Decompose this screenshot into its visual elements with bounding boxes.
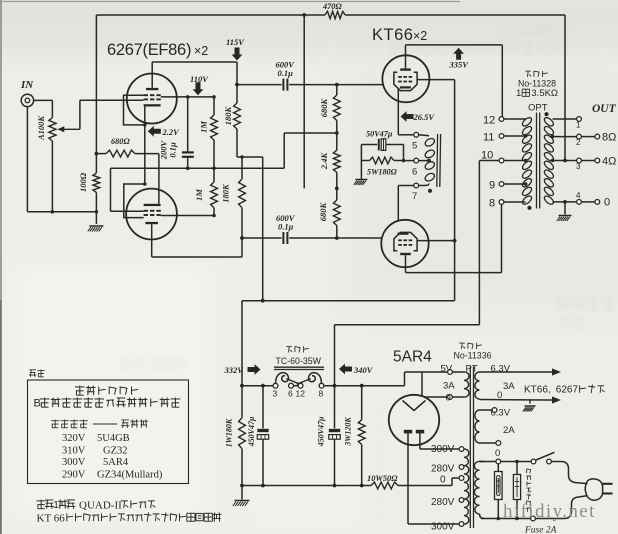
terminal pin6 xyxy=(414,158,419,163)
V2 cathode lead xyxy=(158,154,160,204)
wire filament right xyxy=(424,396,447,398)
tube U1 KT66 envelope xyxy=(382,55,429,102)
svg-text:4: 4 xyxy=(576,191,581,200)
arrow 335V xyxy=(453,48,464,60)
svg-text:TC-60-35W: TC-60-35W xyxy=(276,356,322,366)
wire pin7 to U2 cathode xyxy=(397,186,399,221)
wire ground bus input xyxy=(27,211,96,213)
U2 g2 wire xyxy=(417,240,455,242)
junction g2 cap top xyxy=(186,95,190,99)
junction 242-238 xyxy=(240,236,244,240)
U2 grid dashes xyxy=(398,239,402,241)
terminal 4ohm xyxy=(595,158,600,163)
U3 plates xyxy=(404,430,412,434)
junction divider top xyxy=(335,83,339,87)
terminal 300V bottom xyxy=(459,522,464,527)
V1 cathode xyxy=(144,104,161,106)
resistor 100Ω xyxy=(93,173,100,192)
terminal sec4 xyxy=(577,200,582,205)
svg-text:8: 8 xyxy=(319,389,324,399)
wire NFB to divider node xyxy=(303,15,305,188)
svg-text:10W50Ω: 10W50Ω xyxy=(367,474,398,483)
terminal sec3 xyxy=(577,158,582,163)
U2 bottom electrode xyxy=(400,253,411,255)
U3 plate leads xyxy=(407,433,409,524)
terminal pin12 xyxy=(499,117,504,122)
svg-text:3.5KΩ: 3.5KΩ xyxy=(531,88,558,99)
resistor 5W180Ω xyxy=(361,160,369,162)
svg-text:115V: 115V xyxy=(226,37,245,47)
svg-text:180K: 180K xyxy=(223,105,233,125)
junction cap1 top xyxy=(261,384,265,388)
junction 1M mid xyxy=(212,166,216,170)
svg-text:KT66: KT66 xyxy=(372,26,413,44)
capacitor 450V47μ second xyxy=(334,386,336,429)
svg-text:320V: 320V xyxy=(62,433,86,444)
terminal 300V top xyxy=(459,447,464,452)
V2 plate xyxy=(145,222,158,224)
svg-text:12: 12 xyxy=(483,115,495,127)
junction sec gnd xyxy=(563,200,567,204)
terminal pin10 xyxy=(499,158,504,163)
wire sec tap2 xyxy=(553,136,577,138)
resistor 1M lower xyxy=(211,182,218,208)
terminal sec1 xyxy=(577,117,582,122)
resistor 1M upper xyxy=(211,115,218,140)
svg-text:OPT: OPT xyxy=(528,103,548,114)
wire psu gnd xyxy=(241,486,243,500)
wire 332V screens line xyxy=(242,300,455,302)
PT 63V winding second xyxy=(475,410,480,443)
wire heater CT gnd xyxy=(529,400,531,404)
V2 g2 wire xyxy=(161,215,214,217)
capacitor 600V 0.1μ lower xyxy=(242,237,282,239)
tube U2 KT66 envelope xyxy=(381,220,428,267)
svg-text:450V47μ: 450V47μ xyxy=(247,416,256,447)
svg-text:×2: ×2 xyxy=(413,29,427,43)
svg-text:10: 10 xyxy=(481,150,493,162)
junction fuse bottom xyxy=(497,517,501,521)
terminal AC bottom xyxy=(531,516,536,521)
terminal 5V top xyxy=(448,370,453,375)
wire screens drop xyxy=(454,80,456,301)
wire V2 g3 to cathode node xyxy=(144,154,146,184)
wire choke mid xyxy=(293,385,298,387)
U2 beam plate xyxy=(394,232,417,250)
svg-text:1W180K: 1W180K xyxy=(225,418,234,447)
wire heater top xyxy=(480,371,549,373)
arrow 2.2V xyxy=(148,126,161,137)
svg-text:2.2V: 2.2V xyxy=(162,127,181,137)
arrow heater bottom xyxy=(552,396,561,403)
svg-text:0.1μ: 0.1μ xyxy=(278,222,294,232)
svg-text:5AR4: 5AR4 xyxy=(103,457,129,468)
table title 電源トランス xyxy=(75,386,85,388)
PT 5V winding xyxy=(464,372,469,397)
coil cathode winding xyxy=(424,137,436,148)
wire wiper to V1 grid xyxy=(80,99,144,101)
wire jack to pot xyxy=(34,99,53,101)
svg-text:No-11328: No-11328 xyxy=(518,79,556,89)
show-through text (page verso) xyxy=(121,22,616,370)
svg-text:300V: 300V xyxy=(431,522,455,533)
svg-text:8Ω: 8Ω xyxy=(602,132,616,144)
terminal 8ohm xyxy=(595,134,600,139)
wire choke right xyxy=(324,385,405,387)
svg-text:0.1μ: 0.1μ xyxy=(168,142,178,158)
terminal pin8 xyxy=(499,200,504,205)
input jack J1 xyxy=(21,94,33,106)
choke coil L2 xyxy=(309,373,322,385)
wire switch to plug xyxy=(551,462,587,484)
wire to U1 grid xyxy=(337,84,383,86)
U2 plate line to pin8 xyxy=(406,272,502,274)
tube V1 6267(EF86) envelope xyxy=(127,74,177,124)
svg-text:5: 5 xyxy=(412,141,417,152)
wire NFB rail top xyxy=(96,14,325,16)
V1 plate xyxy=(146,88,158,90)
svg-text:335V: 335V xyxy=(449,60,470,70)
svg-text:300V: 300V xyxy=(431,444,455,455)
ground OPT xyxy=(559,215,572,217)
label スパークキラー xyxy=(526,469,528,474)
U1 grid dashes xyxy=(398,76,402,78)
svg-text:IN: IN xyxy=(20,79,34,91)
tube U3 5AR4 envelope xyxy=(389,395,439,445)
svg-text:4Ω: 4Ω xyxy=(602,156,616,168)
terminal 2A bottom xyxy=(496,441,501,446)
capacitor 50V47μ xyxy=(361,144,377,146)
U1 g2 wire xyxy=(417,79,455,81)
resistor 680K upper xyxy=(333,95,340,121)
junction 180K lower top xyxy=(240,155,243,158)
junction 100-gnd bus xyxy=(95,210,99,214)
resistor 470Ω xyxy=(325,11,345,18)
junction sec tap2 xyxy=(551,135,555,139)
U1 top electrode xyxy=(400,68,411,70)
wire 332V down xyxy=(241,301,243,418)
wire V2 grid feed xyxy=(110,168,112,211)
V1 g2 wire xyxy=(161,96,214,98)
svg-text:5U4GB: 5U4GB xyxy=(97,433,130,444)
choke terminal 6 xyxy=(289,383,294,388)
svg-text:290V: 290V xyxy=(62,470,86,481)
svg-text:9: 9 xyxy=(489,180,495,192)
caption line1 xyxy=(37,500,46,502)
svg-text:0: 0 xyxy=(604,197,610,209)
arrow 115V xyxy=(232,48,243,61)
junction NFB 4ohm xyxy=(563,159,567,163)
wire RC left node xyxy=(360,145,362,161)
label 参考 xyxy=(29,369,36,371)
junction cap-gridline xyxy=(186,166,190,170)
svg-text:0: 0 xyxy=(440,475,446,486)
svg-text:0.1μ: 0.1μ xyxy=(278,68,294,78)
svg-text:3W120K: 3W120K xyxy=(344,417,353,447)
svg-text:450V47μ: 450V47μ xyxy=(317,416,326,447)
V2 cathode xyxy=(144,204,161,206)
svg-text:5W180Ω: 5W180Ω xyxy=(367,168,397,177)
wire Bplus rail front-end xyxy=(237,156,263,158)
tube V2 6267(EF86) envelope xyxy=(126,189,177,240)
OPT core xyxy=(536,113,538,209)
wire RC right node xyxy=(403,145,405,161)
svg-text:hifidiy.net: hifidiy.net xyxy=(503,501,596,522)
svg-text:6267: 6267 xyxy=(556,385,579,396)
spark killer xyxy=(516,462,518,475)
svg-text:6: 6 xyxy=(288,389,293,399)
svg-text:26.5V: 26.5V xyxy=(413,112,436,122)
junction sk top xyxy=(515,460,519,464)
choke coil L1 xyxy=(276,373,289,385)
junction 3W120K top xyxy=(360,384,364,388)
svg-text:GZ34(Mullard): GZ34(Mullard) xyxy=(97,470,163,481)
svg-text:1M: 1M xyxy=(194,189,204,201)
svg-text:Fuse 2A: Fuse 2A xyxy=(524,526,557,534)
arrow 110V xyxy=(193,82,204,95)
terminal 0ohm xyxy=(595,200,600,205)
wire OPT gnd xyxy=(564,202,566,215)
junction screens-Bplus xyxy=(261,299,265,303)
OPT secondary winding xyxy=(543,116,555,127)
terminal pin11 xyxy=(499,134,504,139)
svg-text:KT66,: KT66, xyxy=(524,385,551,396)
junction plate-cap xyxy=(235,83,239,87)
junction pot-gnd xyxy=(51,210,55,214)
U1 cathode lead xyxy=(397,89,399,135)
junction NFB tap xyxy=(302,13,306,17)
svg-text:3: 3 xyxy=(576,162,581,171)
wire Bplus 340V to 5V xyxy=(404,372,406,386)
U1 beam plate xyxy=(394,72,417,90)
junction g3-cathode xyxy=(143,123,147,127)
svg-text:50V47μ: 50V47μ xyxy=(366,129,393,138)
svg-text:0: 0 xyxy=(497,390,502,401)
table header 端子電圧-整流管 xyxy=(51,420,59,422)
scan edge top xyxy=(0,1,460,3)
junction choke-332V xyxy=(240,384,244,388)
svg-text:GZ32: GZ32 xyxy=(103,445,128,456)
terminal 280V bottom xyxy=(459,498,464,503)
wire pin10 Bplus xyxy=(479,160,499,162)
resistor 1W180K xyxy=(239,418,246,449)
resistor 180K lower xyxy=(239,179,246,208)
OPT primary winding xyxy=(521,116,533,127)
resistor 2.4K xyxy=(333,150,340,172)
junction pin6 tap xyxy=(427,159,431,163)
V2 grid dashes xyxy=(144,210,148,212)
terminal pin5 xyxy=(414,132,419,137)
svg-text:680Ω: 680Ω xyxy=(111,137,130,146)
junction U2 g2 xyxy=(453,239,457,243)
resistor 180K upper xyxy=(234,103,241,129)
U1 cathode xyxy=(400,86,411,88)
terminal 5V bottom xyxy=(448,395,453,400)
junction sec tap3 xyxy=(551,159,555,163)
wire sec tap3 xyxy=(553,160,577,162)
label タンゴ (PT) xyxy=(459,342,465,344)
phase dot cathode winding xyxy=(428,189,432,193)
wire 332V to bus xyxy=(241,449,243,486)
junction V2 g3 xyxy=(143,182,147,186)
svg-text:0: 0 xyxy=(446,393,451,404)
svg-text:3A: 3A xyxy=(503,381,515,392)
wire NFB rail right drop xyxy=(564,15,566,161)
svg-text:8: 8 xyxy=(489,198,495,210)
terminal sec2 xyxy=(577,134,582,139)
V2 g3 loop xyxy=(124,184,145,218)
arrow 332V xyxy=(248,364,261,375)
wire ground bus psu xyxy=(242,485,371,487)
arrow 26.5V xyxy=(401,111,414,122)
junction RC to pin6 xyxy=(402,159,406,163)
junction bus dots xyxy=(261,484,265,488)
svg-text:470Ω: 470Ω xyxy=(322,2,342,11)
svg-text:680K: 680K xyxy=(318,201,328,221)
junction NFB-680 xyxy=(95,152,99,156)
wire sec tap4 xyxy=(553,201,577,203)
wire NFB rail left drop xyxy=(95,15,97,154)
svg-text:310V: 310V xyxy=(62,445,86,456)
svg-text:5AR4: 5AR4 xyxy=(393,349,432,366)
choke terminal 8 xyxy=(319,383,324,388)
svg-text:6: 6 xyxy=(412,167,417,178)
wire wiper riser xyxy=(79,100,81,129)
junction divider n2 xyxy=(335,187,339,191)
svg-text:280V: 280V xyxy=(431,497,455,508)
junction pin9 tap xyxy=(524,182,528,186)
phase dot secondary top xyxy=(544,112,548,116)
U3 filament xyxy=(403,401,426,411)
svg-text:1: 1 xyxy=(576,121,581,130)
svg-text:×2: ×2 xyxy=(194,44,208,58)
resistor 3W120K xyxy=(361,386,363,420)
svg-text:6267(EF86): 6267(EF86) xyxy=(107,41,191,59)
PT AC winding xyxy=(474,461,479,514)
V2 g1 wire xyxy=(111,210,144,212)
svg-text:OUT: OUT xyxy=(592,103,617,115)
wire filament top xyxy=(421,372,423,396)
svg-text:No-11336: No-11336 xyxy=(454,351,492,361)
wire V1 plate line xyxy=(152,61,237,63)
svg-text:300V: 300V xyxy=(62,457,86,468)
svg-text:340V: 340V xyxy=(353,365,374,375)
junction g2-1M xyxy=(212,95,216,99)
capacitor 200V 0.1μ xyxy=(187,97,189,152)
svg-text:3A: 3A xyxy=(443,381,455,392)
wire heater bottom xyxy=(480,399,549,402)
resistor 680Ω xyxy=(106,150,135,157)
potentiometer A100K xyxy=(49,118,56,142)
wire choke left xyxy=(242,385,273,387)
svg-text:B: B xyxy=(34,398,41,410)
fuse F1 xyxy=(497,464,499,472)
svg-text:280V: 280V xyxy=(431,464,455,475)
scan edge left xyxy=(0,0,2,534)
wire Bplus drop to 332V line xyxy=(262,157,264,301)
svg-text:KT 66: KT 66 xyxy=(37,513,66,525)
PT primary winding xyxy=(464,449,469,524)
wire AC bottom xyxy=(480,514,485,519)
svg-text:110V: 110V xyxy=(190,74,209,84)
svg-text:QUAD-II: QUAD-II xyxy=(79,500,122,512)
capacitor 600V 0.1μ upper xyxy=(237,84,282,86)
V2 plate lead xyxy=(151,224,153,257)
junction 340V node xyxy=(333,384,337,388)
U2 cathode bar xyxy=(398,233,409,235)
arrow heater top xyxy=(552,368,561,375)
capacitor 450V47μ first xyxy=(262,386,264,429)
plug P1 xyxy=(585,479,602,500)
svg-text:1M: 1M xyxy=(199,121,209,133)
switch SW1 xyxy=(531,459,536,464)
junction pin10 tap xyxy=(524,159,528,163)
svg-text:332V: 332V xyxy=(224,365,245,375)
wire coil bottom to pin7 xyxy=(419,184,429,186)
svg-text:2A: 2A xyxy=(503,425,515,436)
ground input stage xyxy=(89,225,103,227)
svg-text:11: 11 xyxy=(483,132,494,144)
terminal 2A top xyxy=(492,408,497,413)
table frame xyxy=(28,380,189,484)
wire jack shield down xyxy=(26,107,28,212)
phase dot primary bottom xyxy=(527,206,531,210)
label タンゴ (choke) xyxy=(286,346,292,348)
ground heater xyxy=(525,405,536,407)
terminal pin7 xyxy=(414,183,419,188)
terminal pin9 xyxy=(499,182,504,187)
junction 1M-g2low xyxy=(212,214,216,218)
svg-text:7: 7 xyxy=(412,191,417,202)
PT 63V winding first xyxy=(475,372,480,399)
terminal 0 mid xyxy=(459,476,464,481)
junction divider bottom xyxy=(335,236,339,240)
svg-text:6.3V: 6.3V xyxy=(491,364,511,375)
wire bottom to plug xyxy=(564,496,588,519)
U1 plate line xyxy=(406,44,503,46)
PT core xyxy=(469,367,471,529)
pot wiper arrow xyxy=(63,128,80,130)
svg-text:A100K: A100K xyxy=(36,115,46,141)
svg-text:0: 0 xyxy=(495,448,500,459)
choke core xyxy=(274,366,324,368)
wire pot bottom xyxy=(51,141,53,212)
svg-text:680K: 680K xyxy=(319,97,329,117)
wire to U2 grid xyxy=(337,237,382,239)
terminal fuse top xyxy=(496,459,501,464)
wire AC top xyxy=(480,461,485,463)
label タンゴ (OPT) xyxy=(525,70,531,72)
choke terminal 12 xyxy=(298,383,303,388)
wire sec tap1 xyxy=(553,118,577,120)
resistor 10W50Ω xyxy=(371,482,398,489)
svg-text:100Ω: 100Ω xyxy=(78,172,88,192)
choke terminal 3 xyxy=(273,383,278,388)
svg-text:1: 1 xyxy=(516,88,521,99)
ground RC xyxy=(355,179,367,181)
junction pin11 tap xyxy=(524,134,528,138)
ground psu xyxy=(235,500,250,502)
coil core lines xyxy=(436,134,439,187)
svg-text:2: 2 xyxy=(576,138,581,147)
V1 grid dashes g1 g2 xyxy=(144,94,148,96)
svg-text:2.4K: 2.4K xyxy=(319,152,329,171)
resistor 680K lower xyxy=(333,200,340,226)
V1 g3 loop xyxy=(124,95,145,125)
V1 cathode lead xyxy=(144,107,146,154)
terminal 280V top xyxy=(459,465,464,470)
arrow 340V xyxy=(339,364,352,375)
